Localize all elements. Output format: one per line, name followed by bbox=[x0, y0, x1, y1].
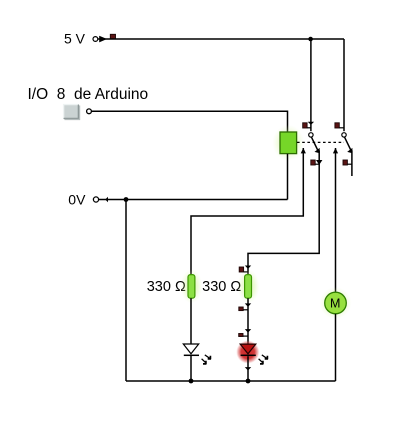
LED D1 (off) bbox=[183, 344, 199, 355]
wire bottom rail bbox=[126, 380, 336, 382]
svg-text:330 Ω: 330 Ω bbox=[147, 279, 186, 295]
pin square switch1 feed bbox=[303, 123, 307, 128]
linkage dashed line bbox=[297, 141, 344, 143]
pin square R2 bottom bbox=[239, 307, 243, 311]
relay coil K1 bbox=[272, 125, 304, 161]
arrow below LED2 bbox=[245, 367, 251, 370]
node junction 0V bbox=[124, 197, 129, 202]
svg-text:M: M bbox=[330, 297, 340, 311]
wire throw2 to motor bbox=[335, 148, 337, 292]
svg-text:I/O 8 de Arduino: I/O 8 de Arduino bbox=[28, 86, 149, 103]
wire throw1 to resistor R1 bbox=[191, 148, 303, 275]
switch 1 pivot bbox=[309, 133, 313, 137]
motor M1 bbox=[320, 287, 352, 319]
wire 5V rail bbox=[107, 38, 344, 40]
terminal 0V bbox=[93, 197, 108, 202]
pin square 5V wire bbox=[110, 34, 115, 39]
resistor R2 bbox=[237, 269, 259, 303]
pin square LED2 top bbox=[239, 334, 243, 337]
pin square switch2 feed bbox=[335, 123, 339, 128]
wire I/O to coil bbox=[91, 111, 287, 132]
wire LED1 to bottom rail bbox=[190, 355, 192, 381]
switch 2 pivot bbox=[342, 133, 346, 137]
node junction 5V rail bbox=[308, 37, 313, 42]
button icon I/O bbox=[63, 104, 80, 120]
wire 0V rail bbox=[99, 199, 288, 201]
terminal 5V bbox=[93, 36, 107, 43]
wire LED2 to bottom rail bbox=[247, 356, 249, 381]
pin square R2 top bbox=[239, 267, 243, 272]
wire switch2 out stub bbox=[351, 150, 353, 176]
wire motor to bottom rail bbox=[335, 314, 337, 381]
arrow above LED2 bbox=[245, 329, 251, 333]
switch 1 arm bbox=[311, 137, 317, 150]
switch 2 arm bbox=[345, 137, 351, 150]
wire R2 to LED2 bbox=[247, 298, 249, 344]
LED D2 emission arrows bbox=[259, 355, 268, 364]
node junction D2 bottom bbox=[246, 379, 251, 384]
LED D2 (lit red) bbox=[236, 340, 259, 363]
arrow into R2 bbox=[245, 266, 251, 269]
wire switch1 out to resistor R2 bbox=[248, 150, 319, 274]
pin square switch1 out bbox=[311, 160, 315, 165]
wire coil bottom to 0V bbox=[287, 154, 289, 200]
resistor R1 bbox=[180, 269, 202, 303]
svg-text:330 Ω: 330 Ω bbox=[202, 279, 241, 295]
wire feed switch 2 bbox=[343, 39, 345, 131]
pin square switch2 out bbox=[343, 160, 347, 165]
svg-text:0V: 0V bbox=[68, 192, 86, 208]
terminal I/O bbox=[87, 109, 92, 114]
svg-text:5 V: 5 V bbox=[64, 30, 86, 46]
node junction D1 bottom bbox=[189, 379, 194, 384]
wire 0V junction down to bottom rail bbox=[125, 200, 127, 382]
arrow below R2 bbox=[245, 303, 251, 307]
wire feed switch 1 bbox=[310, 39, 312, 131]
wire R1 to LED1 bbox=[190, 298, 192, 343]
LED D1 emission arrows bbox=[202, 355, 211, 364]
